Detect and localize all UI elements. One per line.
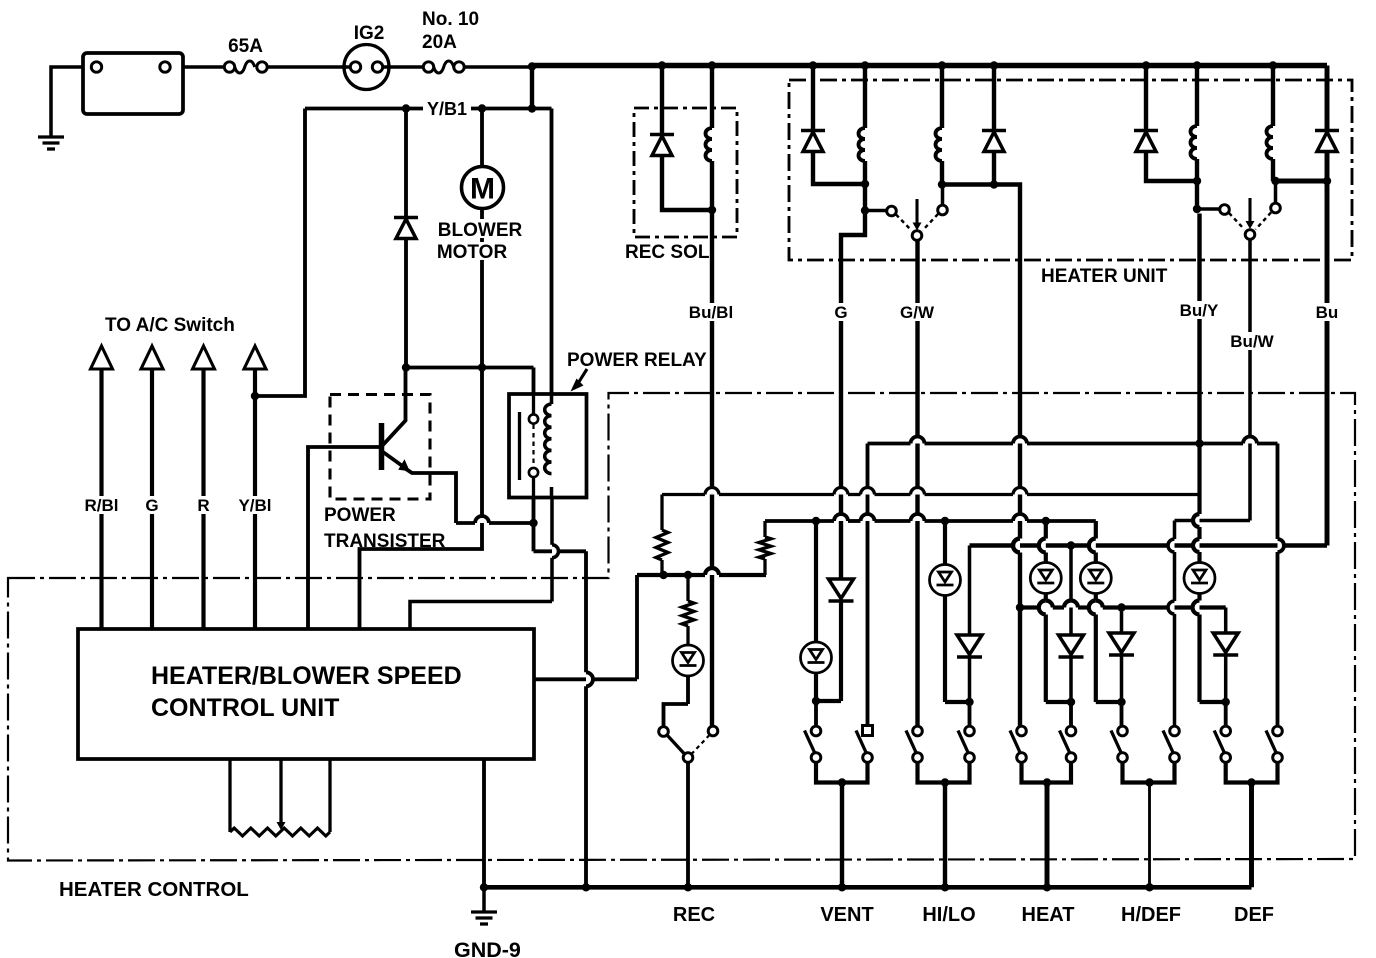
wire DEF merge bbox=[1226, 763, 1278, 783]
wire Y/B1 left loop to A/C bbox=[255, 109, 305, 397]
wire HI/LO right contact bbox=[968, 702, 972, 726]
wire HDEF left contact bbox=[1120, 702, 1124, 726]
label R/Bl bbox=[82, 496, 122, 514]
svg-text:HEAT: HEAT bbox=[1022, 904, 1075, 926]
wire H3 to VENT LED bbox=[814, 521, 818, 641]
wire VENT jog bbox=[816, 699, 841, 703]
relay arm lower pin inside bbox=[532, 477, 535, 498]
heater coil L1 bbox=[859, 128, 865, 161]
LED VENT bbox=[801, 642, 832, 673]
node B junction bbox=[402, 363, 410, 371]
transistor Q1 emitter bbox=[383, 452, 405, 468]
diode D6 (REC SOL) bbox=[650, 133, 674, 137]
wire fuse 65A to IG2 bbox=[267, 65, 350, 69]
switch VENT left bbox=[811, 726, 821, 736]
contact a1 (switch S1) bbox=[887, 206, 897, 216]
wire diode D6 to coil bottom bbox=[662, 156, 712, 211]
wire HEAT merge bbox=[1022, 763, 1072, 783]
label Y/B1 bbox=[423, 99, 471, 117]
label Bu/Bl bbox=[686, 303, 736, 321]
svg-text:TO A/C Switch: TO A/C Switch bbox=[105, 315, 235, 336]
wire Bu/W elbow bbox=[1175, 519, 1251, 523]
wire Bu/Bl down to REC switch bbox=[710, 210, 714, 727]
svg-text:Y/B1: Y/B1 bbox=[427, 99, 467, 119]
svg-text:Bu/Bl: Bu/Bl bbox=[689, 303, 733, 322]
svg-text:MOTOR: MOTOR bbox=[437, 242, 508, 263]
switch REC blade dashed bbox=[692, 735, 710, 754]
wire contact b2 up bbox=[1274, 182, 1278, 203]
LED HI/LO bbox=[930, 565, 961, 596]
label Bu/Y bbox=[1176, 301, 1223, 319]
wire L1 elbow to G bbox=[841, 211, 865, 263]
wire G diode bbox=[839, 577, 843, 581]
junction bus REC bbox=[684, 883, 692, 891]
diode D8 (HI/LO) bbox=[957, 635, 982, 655]
wire L3 junction down bbox=[1195, 181, 1199, 209]
wire node E down bbox=[532, 523, 536, 551]
wire VENT LED down bbox=[814, 674, 818, 701]
svg-text:HI/LO: HI/LO bbox=[922, 904, 975, 926]
wire Bu/W down bbox=[1248, 239, 1252, 520]
switch HI/LO right bbox=[965, 726, 975, 736]
junction VENT merge bbox=[838, 778, 846, 786]
diode D4 bbox=[1315, 129, 1339, 133]
wire junction to contact a2 bbox=[1197, 207, 1220, 211]
LED DEF bbox=[1184, 563, 1215, 594]
wire node down to Y/B1 rail bbox=[530, 67, 534, 109]
junction HI/LO merge bbox=[941, 778, 949, 786]
power relay box bbox=[509, 394, 587, 498]
HEATER UNIT dashed box bbox=[789, 80, 1352, 260]
svg-text:G/W: G/W bbox=[900, 303, 935, 322]
junction Y/Bl line bbox=[251, 392, 259, 400]
relay arm pin inside bbox=[532, 394, 535, 415]
wire relay arm pin down bbox=[532, 498, 536, 524]
relay contact lower bbox=[529, 468, 538, 477]
wire REC solenoid to junction bbox=[710, 161, 714, 210]
contact b2 (switch S2) bbox=[1271, 203, 1281, 213]
label BLOWER bbox=[437, 219, 525, 238]
wire H2 end to DEF LED bbox=[1197, 444, 1201, 515]
wire Bu down bbox=[1325, 181, 1330, 546]
wire diode D4 down bbox=[1325, 152, 1330, 182]
junction bus HEAT bbox=[1043, 883, 1051, 891]
wire DEF left contact bbox=[1224, 702, 1228, 726]
wire HEAT LED down bbox=[1044, 595, 1048, 601]
wire rail to coil L3 bbox=[1195, 66, 1199, 127]
REC SOL dashed box bbox=[634, 108, 737, 237]
resistor R2 (x765) bbox=[763, 521, 766, 537]
wire Y/Bl to control unit bbox=[253, 369, 257, 630]
wire relay contact feed down bbox=[532, 368, 536, 395]
relay contact upper bbox=[529, 414, 538, 423]
wire diode D5 to node B bbox=[404, 239, 408, 368]
wire node E to x586 bbox=[534, 549, 587, 553]
power transistor dashed box bbox=[330, 395, 430, 500]
contact a2 (switch S2) bbox=[1220, 205, 1230, 215]
switch REC contact left bbox=[659, 727, 669, 737]
pot wiper arrow bbox=[279, 759, 282, 825]
svg-text:G: G bbox=[145, 496, 158, 515]
diode D7 (G line) bbox=[829, 579, 854, 599]
wire DEF diode down bbox=[1224, 655, 1228, 703]
wire HEAT to bus bbox=[1045, 783, 1050, 888]
wire fuse No.10 to node bbox=[464, 65, 532, 69]
wire HEAT diode down bbox=[1069, 657, 1073, 703]
junction bus HI/LO bbox=[941, 883, 949, 891]
switch H/DEF left bbox=[1118, 726, 1128, 736]
heater coil L3 bbox=[1191, 126, 1198, 159]
diode D2 bbox=[982, 129, 1006, 133]
A/C connector arrow R/Bl bbox=[91, 346, 113, 369]
relay coil bbox=[545, 404, 552, 474]
A/C connector arrow Y/Bl bbox=[244, 346, 266, 369]
horizontal H1 y443.5 bbox=[868, 442, 911, 446]
switch S1 dashed blade left bbox=[896, 215, 912, 231]
wire Y/B1 to power relay coil bbox=[550, 109, 554, 395]
junction rail to heater diode D1 bbox=[809, 61, 817, 69]
ground (battery) bbox=[38, 135, 64, 138]
wire HI/LO jog bbox=[945, 700, 970, 704]
svg-text:POWER: POWER bbox=[324, 505, 396, 526]
wire H545 to HI/LO diode bbox=[968, 546, 972, 636]
junction HEAT jog bbox=[1067, 698, 1075, 706]
junction HDEF jog bbox=[1117, 698, 1125, 706]
resistor R3 (x687) bbox=[686, 575, 689, 601]
junction L3 switch bbox=[1193, 205, 1201, 213]
wire x586 down to bus bbox=[584, 551, 588, 672]
label G bbox=[141, 496, 163, 514]
junction REC SOL bbox=[708, 206, 716, 214]
wire HEAT jog bbox=[1046, 700, 1071, 704]
svg-text:IG2: IG2 bbox=[354, 23, 385, 44]
svg-text:H/DEF: H/DEF bbox=[1121, 904, 1181, 926]
wire HI/LO to bus bbox=[943, 783, 947, 888]
junction H3 VENT led bbox=[812, 517, 820, 525]
svg-text:REC SOL: REC SOL bbox=[625, 242, 710, 263]
battery bbox=[83, 53, 183, 114]
junction F1 bbox=[659, 571, 667, 579]
junction node B motor line bbox=[478, 363, 486, 371]
wire rail to coil L1 bbox=[863, 66, 867, 129]
junction H1 BuY bbox=[1195, 439, 1203, 447]
wire Bu/W down to H/DEF bbox=[1173, 521, 1177, 540]
svg-text:65A: 65A bbox=[228, 36, 263, 57]
wire IG2 to fuse No.10 bbox=[383, 65, 423, 69]
wire blower motor to node B bbox=[480, 209, 484, 368]
wire node B to relay contact bbox=[406, 366, 534, 370]
junction DEF jog bbox=[1222, 698, 1230, 706]
LED HEAT bbox=[1030, 563, 1061, 594]
svg-text:HEATER CONTROL: HEATER CONTROL bbox=[59, 878, 249, 901]
diode D5 (motor flyback) bbox=[394, 216, 418, 220]
switch DEF left bbox=[1221, 726, 1231, 736]
wire coil L2 down bbox=[940, 161, 944, 185]
wire REC LED down bbox=[686, 677, 690, 704]
svg-text:G: G bbox=[834, 303, 847, 322]
junction rail to REC SOL coil bbox=[708, 61, 716, 69]
ground bus bbox=[484, 885, 1252, 890]
wire REC jog bbox=[664, 704, 689, 727]
LED REC bbox=[673, 645, 704, 676]
wire rail to REC solenoid coil bbox=[710, 66, 714, 129]
wire relay coil to box bottom bbox=[550, 487, 554, 498]
junction L2-D2 bbox=[938, 180, 946, 188]
junction rail to heater coil L4 bbox=[1269, 61, 1277, 69]
relay coil feed bbox=[550, 394, 554, 404]
junction D4-Bu bbox=[1323, 177, 1331, 185]
junction H3 HEAT led bbox=[1042, 517, 1050, 525]
label MOTOR bbox=[437, 242, 509, 260]
svg-text:BLOWER: BLOWER bbox=[438, 220, 523, 241]
transistor Q1 emitter arrowhead bbox=[398, 459, 410, 471]
junction H5 HDEF diode bbox=[1117, 603, 1125, 611]
junction L1 switch bbox=[861, 206, 869, 214]
resistor R1 (x662) bbox=[660, 495, 663, 531]
junction HI/LO jog bbox=[965, 698, 973, 706]
junction wavy tap bbox=[1016, 603, 1024, 611]
junction D3-L3 bbox=[1193, 177, 1201, 185]
wire H545 to HEAT diode bbox=[1069, 546, 1073, 636]
switch HEAT right bbox=[1066, 726, 1076, 736]
junction L4 bbox=[1271, 177, 1279, 185]
wire REC common to bus bbox=[686, 763, 690, 888]
wire relay coil pin down with hop bbox=[550, 498, 554, 545]
wire H5 to DEF diode bbox=[1224, 608, 1228, 634]
wire VENT merge bbox=[816, 763, 868, 783]
junction HEAT merge bbox=[1043, 778, 1051, 786]
switch H/DEF right bbox=[1170, 726, 1180, 736]
transistor Q1 base bar bbox=[379, 423, 385, 470]
junction F2 bbox=[684, 571, 692, 579]
ground GND-9 bbox=[471, 910, 497, 913]
switch REC blade solid bbox=[667, 735, 685, 754]
junction VENT jog bbox=[812, 697, 820, 705]
wire H3 corner to HDEF LED bbox=[1094, 521, 1098, 539]
wire emitter to relay node bbox=[406, 469, 456, 523]
label R bbox=[194, 496, 214, 514]
svg-text:Bu/Y: Bu/Y bbox=[1180, 301, 1219, 320]
wire HDEF LED down bbox=[1094, 595, 1098, 601]
svg-text:20A: 20A bbox=[422, 32, 457, 53]
label G/W bbox=[894, 303, 941, 321]
wire coil pin to control unit bbox=[410, 602, 552, 631]
junction D1-L1 bbox=[861, 180, 869, 188]
wire x637 up to node F bbox=[635, 575, 639, 679]
svg-text:VENT: VENT bbox=[820, 904, 873, 926]
junction bus H/DEF bbox=[1145, 883, 1153, 891]
wire HDEF jog bbox=[1096, 700, 1122, 704]
wire rail to coil L4 bbox=[1271, 66, 1275, 127]
wire heater to HEAT contact bbox=[1018, 262, 1022, 539]
node F horizontal y575 bbox=[637, 573, 705, 577]
svg-text:DEF: DEF bbox=[1234, 904, 1274, 926]
svg-text:CONTROL UNIT: CONTROL UNIT bbox=[151, 694, 339, 722]
blower motor M bbox=[462, 167, 504, 209]
A/C connector arrow G bbox=[141, 346, 163, 369]
wire rail to diode D2 bbox=[992, 66, 996, 131]
label Bu bbox=[1312, 303, 1342, 321]
svg-text:Bu: Bu bbox=[1316, 303, 1339, 322]
diode D3 bbox=[1134, 129, 1158, 133]
wire VENT right contact up bbox=[866, 444, 870, 726]
svg-text:Y/Bl: Y/Bl bbox=[238, 496, 271, 515]
junction Y/B1 diode tap bbox=[402, 104, 410, 112]
wire REC LED feed bbox=[686, 642, 690, 646]
wire G/W down to HI/LO bbox=[915, 240, 919, 726]
switch S1 dashed blade right bbox=[923, 214, 939, 231]
junction bus VENT bbox=[838, 883, 846, 891]
top power rail (thick) bbox=[532, 63, 1327, 69]
horizontal H3 y521 bbox=[765, 519, 834, 523]
wire battery to chassis ground bbox=[51, 67, 83, 136]
wire rail to diode D6 bbox=[660, 66, 664, 135]
switch S2 dashed blade right bbox=[1256, 213, 1272, 230]
wire HDEF diode down bbox=[1120, 655, 1124, 703]
svg-text:HEATER/BLOWER SPEED: HEATER/BLOWER SPEED bbox=[151, 662, 462, 690]
fuse No.10 20A bbox=[423, 62, 433, 72]
wire battery to fuse 65A bbox=[183, 65, 224, 69]
Y/B1 rail bbox=[305, 107, 552, 111]
junction H/DEF merge bbox=[1145, 778, 1153, 786]
svg-text:HEATER UNIT: HEATER UNIT bbox=[1041, 266, 1168, 287]
junction Y/B1 node bbox=[528, 104, 536, 112]
junction rail to heater coil L3 bbox=[1193, 61, 1201, 69]
wire DEF LED down bbox=[1197, 595, 1201, 601]
switch S1 actuator arrow bbox=[915, 199, 918, 226]
wire VENT to bus bbox=[840, 783, 844, 888]
wire diode D3 to junction L3 bbox=[1146, 152, 1197, 182]
junction bus gnd bbox=[480, 883, 488, 891]
switch DEF right bbox=[1273, 726, 1283, 736]
transistor Q1 base wire bbox=[308, 447, 380, 630]
junction rail to heater coil L2 bbox=[938, 61, 946, 69]
wire H3 to HEAT LED bbox=[1044, 521, 1048, 539]
pot left leg bbox=[228, 759, 231, 832]
switch VENT right upper square bbox=[863, 726, 873, 736]
wire VENT left contact bbox=[814, 701, 818, 726]
wire HEAT right contact bbox=[1069, 702, 1073, 726]
heater control boundary bbox=[8, 393, 1355, 861]
switch S2 common pole bbox=[1245, 230, 1255, 240]
wire diode D2 down bbox=[992, 152, 996, 185]
wire rail to diode D4 bbox=[1325, 66, 1330, 131]
wire control unit right exit bbox=[534, 677, 637, 681]
wire HI/LO diode down bbox=[968, 657, 972, 703]
wire L4 junction to diode D4 bbox=[1273, 179, 1327, 184]
A/C connector arrow R bbox=[193, 346, 215, 369]
svg-text:POWER RELAY: POWER RELAY bbox=[567, 350, 707, 371]
junction H545 HEAT diode bbox=[1067, 541, 1075, 549]
wire H5 to HDEF diode bbox=[1120, 608, 1124, 634]
junction H3 HI/LO led bbox=[941, 517, 949, 525]
wire Y/B1 to diode D5 bbox=[404, 109, 408, 218]
node E junction bbox=[529, 519, 537, 527]
wire crossing hops bbox=[1013, 539, 1020, 553]
wire HI/LO merge bbox=[918, 763, 970, 783]
wire junction to contact a1 bbox=[865, 209, 887, 213]
wire H/DEF merge bbox=[1123, 763, 1175, 783]
diode D10 (H/DEF) bbox=[1109, 633, 1134, 653]
wire control unit to ground bbox=[482, 759, 486, 887]
horizontal H545 bbox=[970, 543, 1328, 548]
fuse 65A bbox=[224, 62, 234, 72]
wire rail to diode D1 bbox=[811, 66, 815, 131]
power relay pointer arrow bbox=[577, 369, 587, 385]
wire DEF to bus corner bbox=[1249, 783, 1254, 888]
horizontal H2 y494.5 bbox=[662, 493, 705, 496]
wire L2 junction to diode D2 bbox=[942, 182, 994, 186]
wire coil L3 down bbox=[1195, 159, 1199, 181]
wire emitter horizontal with hop bbox=[456, 521, 475, 525]
REC solenoid coil bbox=[706, 128, 712, 161]
switch HI/LO left bbox=[913, 726, 923, 736]
wire coil L1 down bbox=[863, 161, 867, 211]
node at x532 top rail bbox=[528, 62, 536, 70]
wavy H5 y607.5 bbox=[1020, 605, 1039, 609]
wire G to control unit bbox=[150, 369, 154, 630]
LED H/DEF bbox=[1080, 563, 1111, 594]
HEATER/BLOWER SPEED CONTROL UNIT box bbox=[78, 629, 534, 759]
diode D11 (DEF) bbox=[1213, 633, 1238, 653]
wire rail to diode D3 bbox=[1144, 66, 1148, 131]
wire G down bbox=[839, 262, 843, 579]
wire Bu/Y down bbox=[1197, 214, 1201, 444]
wire HI/LO LED down bbox=[943, 597, 947, 703]
potentiometer resistor bbox=[230, 828, 330, 836]
switch S2 dashed blade left bbox=[1229, 213, 1245, 230]
wire D2 junction right and down bbox=[994, 185, 1020, 263]
contact b1 (switch S1) bbox=[938, 205, 948, 215]
pot right leg bbox=[328, 759, 331, 832]
svg-text:R: R bbox=[197, 496, 209, 515]
wire DEF right contact drop bbox=[1276, 444, 1280, 540]
junction D2 bbox=[990, 180, 998, 188]
wire H/DEF to bus bbox=[1148, 783, 1151, 888]
label G bbox=[828, 303, 854, 321]
switch S1 common pole bbox=[912, 231, 922, 241]
wire G diode down bbox=[839, 601, 843, 702]
svg-text:No. 10: No. 10 bbox=[422, 9, 479, 30]
wire Y/B1 to blower motor bbox=[480, 109, 484, 168]
relay dashed armature bbox=[532, 425, 534, 468]
heater coil L2 bbox=[936, 128, 943, 161]
svg-text:REC: REC bbox=[673, 904, 715, 926]
svg-text:R/Bl: R/Bl bbox=[85, 496, 119, 515]
label Bu/W bbox=[1227, 332, 1277, 350]
switch S2 actuator arrow bbox=[1248, 198, 1251, 224]
transistor Q1 collector bbox=[382, 368, 406, 447]
wire H3 to HI/LO LED bbox=[943, 521, 947, 564]
ignition switch IG2 bbox=[344, 45, 389, 90]
wire motor return to control unit bbox=[360, 368, 483, 631]
junction DEF merge bbox=[1247, 778, 1255, 786]
wire rail to coil L2 bbox=[940, 66, 944, 129]
junction bus x586 bbox=[582, 883, 590, 891]
label Y/Bl bbox=[235, 496, 275, 514]
wire contact b1 up bbox=[941, 185, 945, 205]
diode D1 bbox=[801, 129, 825, 133]
wire DEF jog bbox=[1200, 700, 1226, 704]
wire R/Bl to control unit bbox=[99, 369, 103, 630]
svg-text:M: M bbox=[470, 173, 495, 206]
junction rail to heater diode D3 bbox=[1142, 61, 1150, 69]
switch REC contact right bbox=[708, 726, 718, 736]
junction rail to REC SOL diode bbox=[658, 61, 666, 69]
svg-text:Bu/W: Bu/W bbox=[1230, 332, 1274, 351]
wire coil L4 down bbox=[1271, 159, 1275, 181]
junction rail to heater diode D2 bbox=[990, 61, 998, 69]
